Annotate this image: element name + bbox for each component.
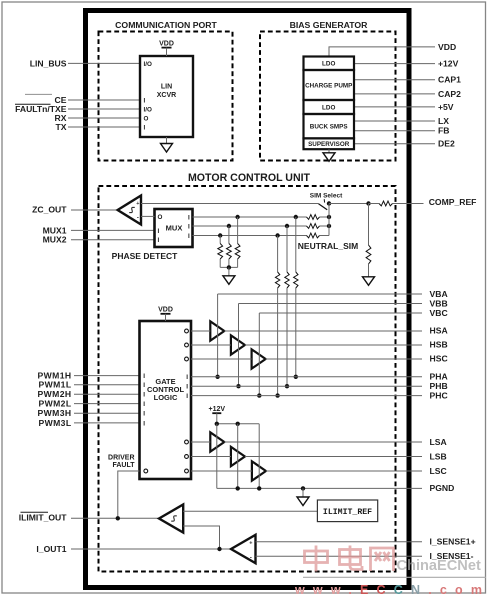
svg-text:MOTOR CONTROL UNIT: MOTOR CONTROL UNIT xyxy=(188,172,311,184)
svg-text:I: I xyxy=(143,392,145,399)
svg-text:I: I xyxy=(186,374,188,381)
svg-text:VBA: VBA xyxy=(430,289,448,299)
svg-text:XCVR: XCVR xyxy=(157,92,176,99)
svg-text:I: I xyxy=(143,401,145,408)
svg-text:LSC: LSC xyxy=(430,466,447,476)
svg-text:MUX2: MUX2 xyxy=(43,235,67,245)
svg-text:CAP2: CAP2 xyxy=(438,89,461,99)
svg-text:BUCK SMPS: BUCK SMPS xyxy=(310,124,348,131)
svg-text:PHASE DETECT: PHASE DETECT xyxy=(112,251,178,261)
svg-text:I: I xyxy=(158,228,160,235)
svg-text:I/O: I/O xyxy=(144,61,152,68)
svg-text:VDD: VDD xyxy=(159,40,174,47)
svg-text:MUX: MUX xyxy=(166,224,183,233)
svg-text:ILIMIT_REF: ILIMIT_REF xyxy=(323,508,372,517)
svg-text:HSC: HSC xyxy=(430,353,448,363)
svg-text:PWM3L: PWM3L xyxy=(38,418,71,428)
svg-text:VBC: VBC xyxy=(430,308,448,318)
svg-text:VDD: VDD xyxy=(438,42,456,52)
svg-text:+12V: +12V xyxy=(438,59,459,69)
svg-text:LDO: LDO xyxy=(322,104,335,111)
svg-text:LDO: LDO xyxy=(322,61,335,68)
svg-text:VDD: VDD xyxy=(158,306,173,313)
svg-text:LOGIC: LOGIC xyxy=(154,393,178,402)
svg-text:+: + xyxy=(249,541,252,547)
svg-text:I: I xyxy=(144,124,146,131)
svg-text:HSB: HSB xyxy=(430,339,448,349)
svg-text:NEUTRAL_SIM: NEUTRAL_SIM xyxy=(298,241,358,251)
svg-text:CHARGE PUMP: CHARGE PUMP xyxy=(305,82,352,89)
svg-text:SUPERVISOR: SUPERVISOR xyxy=(308,141,350,148)
svg-text:COMMUNICATION PORT: COMMUNICATION PORT xyxy=(115,20,217,30)
svg-text:www.ECCN.com: www.ECCN.com xyxy=(294,583,489,597)
svg-text:DRIVER: DRIVER xyxy=(108,455,134,462)
svg-text:LIN: LIN xyxy=(161,83,172,90)
svg-text:ZC_OUT: ZC_OUT xyxy=(32,205,67,215)
svg-text:FB: FB xyxy=(438,126,449,136)
svg-text:O: O xyxy=(144,115,149,122)
svg-text:DE2: DE2 xyxy=(438,139,455,149)
svg-text:I: I xyxy=(143,411,145,418)
svg-text:I: I xyxy=(143,382,145,389)
svg-text:LSB: LSB xyxy=(430,451,447,461)
svg-text:FAULT: FAULT xyxy=(112,462,135,469)
svg-text:I_OUT1: I_OUT1 xyxy=(36,544,66,554)
svg-text:+12V: +12V xyxy=(209,406,226,413)
svg-text:PHC: PHC xyxy=(430,391,448,401)
svg-text:+: + xyxy=(136,201,139,207)
svg-text:I/O: I/O xyxy=(144,106,152,113)
svg-text:PWM3H: PWM3H xyxy=(38,408,72,418)
svg-text:TX: TX xyxy=(56,122,67,132)
svg-text:I: I xyxy=(188,223,190,230)
svg-text:CAP1: CAP1 xyxy=(438,75,461,85)
svg-text:BIAS GENERATOR: BIAS GENERATOR xyxy=(290,20,369,30)
svg-text:ChinaECNet: ChinaECNet xyxy=(397,558,481,574)
svg-text:I: I xyxy=(186,393,188,400)
svg-text:I_SENSE1+: I_SENSE1+ xyxy=(430,537,476,547)
svg-text:I: I xyxy=(144,97,146,104)
svg-text:LX: LX xyxy=(438,116,449,126)
svg-text:I: I xyxy=(188,214,190,221)
svg-text:I: I xyxy=(158,237,160,244)
svg-text:LSA: LSA xyxy=(430,437,447,447)
svg-text:ILIMIT_OUT: ILIMIT_OUT xyxy=(19,513,67,523)
svg-text:LIN_BUS: LIN_BUS xyxy=(30,58,67,68)
svg-text:PWM2L: PWM2L xyxy=(38,399,71,409)
svg-text:+5V: +5V xyxy=(438,102,454,112)
svg-text:-: - xyxy=(137,215,139,222)
svg-text:HSA: HSA xyxy=(430,325,448,335)
svg-text:I: I xyxy=(143,420,145,427)
svg-text:SIM Select: SIM Select xyxy=(310,193,343,200)
svg-text:I: I xyxy=(143,373,145,380)
svg-text:VBB: VBB xyxy=(430,298,448,308)
svg-text:O: O xyxy=(158,214,163,221)
svg-text:COMP_REF: COMP_REF xyxy=(429,197,477,207)
svg-text:I: I xyxy=(188,233,190,240)
svg-text:I: I xyxy=(186,384,188,391)
svg-text:PGND: PGND xyxy=(430,483,455,493)
svg-text:-: - xyxy=(250,555,252,562)
